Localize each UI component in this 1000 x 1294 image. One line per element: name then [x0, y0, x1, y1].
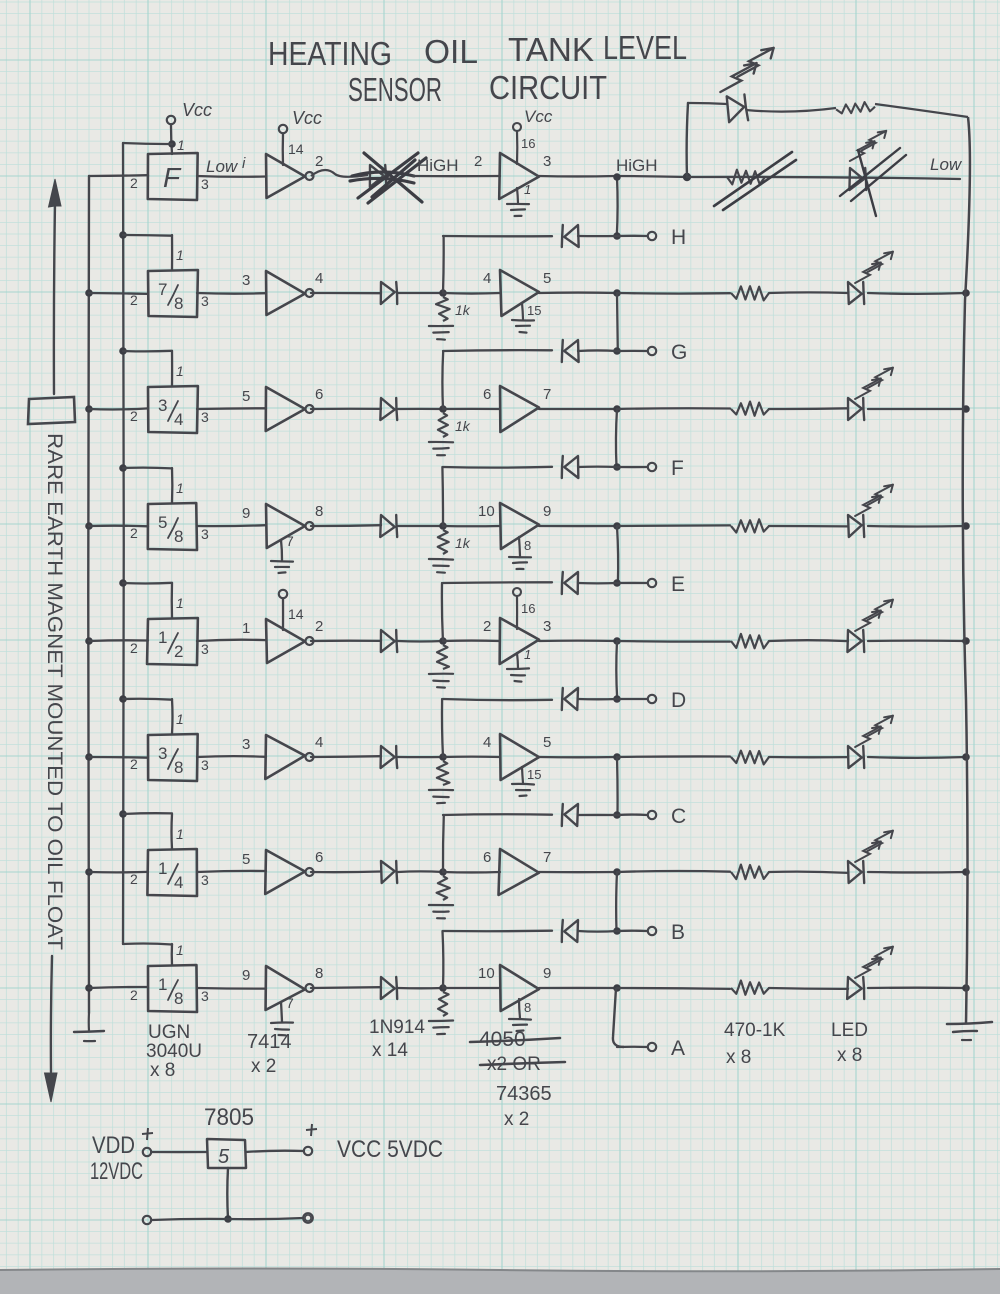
wire row 8: inverter to diode: [311, 986, 381, 989]
inverter 7414 row 5: [266, 619, 305, 663]
svg-text:LED: LED: [831, 1020, 868, 1041]
junction: Vcc bus tap row 4: [119, 464, 127, 472]
inverter 7414 row 7: [265, 850, 305, 894]
plus sign at output: [306, 1124, 317, 1136]
wire: 7805 ground stem: [226, 1168, 229, 1219]
svg-text:3040U: 3040U: [146, 1041, 202, 1062]
svg-text:SENSOR: SENSOR: [348, 71, 442, 108]
junction node H: [613, 232, 621, 240]
svg-text:1: 1: [176, 247, 184, 263]
pull-down resistor 1k row 2: [436, 297, 450, 321]
svg-text:TANK: TANK: [508, 31, 594, 68]
wire row 7: sensor pin 3 to inverter: [197, 871, 266, 872]
svg-text:1: 1: [524, 182, 531, 197]
ground: buffer pin 8 row 8: [519, 999, 520, 1018]
hall sensor U7 (1/4): [147, 849, 197, 896]
junction: Vcc bus tap row 1: [168, 140, 176, 148]
inverter 7414 row 1: [266, 154, 305, 198]
wire node C: to isolation diode: [443, 813, 552, 816]
svg-text:3: 3: [242, 272, 250, 289]
ground: buffer pin 15 row 6: [522, 767, 523, 783]
svg-text:4: 4: [174, 873, 183, 892]
wire row 4: diode to junction: [398, 525, 443, 527]
wire row 5: inverter to diode: [311, 640, 381, 643]
svg-text:74365: 74365: [496, 1083, 552, 1105]
svg-text:1: 1: [176, 711, 184, 727]
LED row 5: [847, 630, 861, 652]
diode 1N914 row 5: [381, 630, 395, 652]
LED row 2: [848, 282, 862, 304]
Vcc terminal row 1 (buffer pin 16): [513, 123, 521, 131]
plus sign at input: [142, 1128, 153, 1140]
pull-down resistor 1k row 6: [437, 761, 450, 785]
wire: Vcc bus to sensor pin 1 row 2: [123, 234, 172, 237]
terminal node E: [648, 579, 656, 587]
diode 1N914 row 8: [381, 977, 395, 999]
junction row 5 at node riser: [613, 637, 621, 645]
wire row 6: sensor pin 3 to inverter: [197, 755, 266, 758]
ground: buffer pin 8 row 4: [519, 537, 520, 556]
junction: Vcc bus tap row 3: [119, 347, 127, 355]
node H riser from row 1: [616, 177, 619, 236]
junction: Vcc bus tap row 2: [119, 231, 127, 239]
wire: Vcc tap to bus: [123, 143, 172, 144]
svg-text:x 8: x 8: [837, 1045, 862, 1066]
svg-text:1: 1: [158, 975, 167, 994]
wire row 2: resistor to LED: [769, 291, 848, 294]
wire node D: diode to riser: [578, 698, 617, 701]
svg-text:5: 5: [543, 270, 551, 287]
junction: outer bus to row 2: [85, 289, 93, 297]
wire row 6: inverter to diode: [311, 755, 381, 758]
svg-text:3: 3: [201, 988, 209, 1004]
diode 1N914 row 7: [381, 861, 395, 883]
terminal node A: [648, 1043, 656, 1051]
wire row 8: sensor pin 3 to inverter: [197, 987, 266, 990]
wire row 1: bus to sensor pin 2: [89, 174, 148, 177]
junction row 3 at pull-down: [439, 405, 447, 413]
wire: Vcc bus to sensor pin 1 row 4: [123, 466, 172, 469]
junction row 6 at pull-down: [439, 753, 447, 761]
svg-text:2: 2: [130, 640, 138, 656]
junction on ground return: [224, 1215, 232, 1223]
wire row 5: resistor to LED: [769, 639, 848, 642]
ground: pull-down row 5: [429, 673, 453, 676]
svg-text:D: D: [671, 689, 686, 712]
Vcc terminal row 5 (buffer pin 16): [513, 588, 521, 596]
svg-text:E: E: [671, 573, 685, 596]
hall sensor U1 (F): [148, 153, 198, 200]
wire row 5: bus to sensor pin 2: [89, 639, 148, 642]
wire node E: riser to terminal: [617, 582, 647, 584]
svg-text:2: 2: [130, 525, 138, 541]
wire row 6: LED to right bus: [868, 756, 966, 759]
svg-text:10: 10: [478, 965, 495, 982]
svg-text:2: 2: [130, 987, 138, 1003]
VCC output terminal: [304, 1147, 312, 1155]
ground: pull-down row 4: [429, 558, 453, 561]
svg-text:8: 8: [174, 758, 183, 777]
diode 1N914 row 4: [380, 515, 395, 537]
svg-text:3: 3: [201, 526, 209, 542]
ground at bottom of left bus: [88, 1013, 90, 1031]
isolation diode node F: [564, 456, 578, 478]
wire row 3: junction up to node G: [441, 351, 444, 409]
wire row 5: buffer output to right bus: [539, 640, 617, 643]
wire node G: diode to riser: [578, 349, 617, 352]
junction node E: [613, 579, 621, 587]
wire row 4: resistor to LED: [769, 525, 848, 528]
svg-text:9: 9: [543, 503, 551, 520]
svg-text:15: 15: [527, 303, 541, 318]
junction row 8 at pull-down: [439, 984, 447, 992]
ground: pull-down row 6: [429, 789, 453, 791]
svg-text:Low: Low: [930, 155, 963, 174]
svg-text:8: 8: [174, 989, 183, 1008]
svg-text:2: 2: [483, 618, 491, 635]
svg-text:5: 5: [242, 851, 250, 868]
up arrow (magnet travel, top): [49, 179, 62, 207]
svg-text:8: 8: [315, 503, 323, 520]
Vcc terminal row 5 (inverter pin 14): [279, 590, 287, 598]
svg-text:7: 7: [543, 849, 551, 866]
resistor 470-1K row 8: [731, 981, 769, 995]
ground: buffer pin 1 row 1: [517, 188, 518, 203]
svg-text:2: 2: [474, 153, 482, 170]
wire row 5: LED to right bus: [868, 639, 966, 642]
wire row 7: inverter to diode: [311, 870, 381, 873]
node A riser from row 8: [613, 988, 624, 1047]
svg-text:1: 1: [524, 647, 531, 662]
svg-text:G: G: [671, 341, 687, 364]
svg-text:9: 9: [242, 505, 250, 522]
junction: outer bus to row 8: [85, 984, 93, 992]
wire row 3: LED to right bus: [868, 408, 966, 410]
hall sensor U3 (3/4): [148, 386, 198, 433]
wire node G: to isolation diode: [443, 349, 552, 352]
junction row 5 on right bus: [962, 637, 970, 645]
svg-text:x 2: x 2: [504, 1109, 529, 1130]
svg-text:1: 1: [177, 137, 185, 153]
svg-text:H: H: [671, 226, 686, 249]
diode 1N914 row 2: [381, 282, 395, 304]
resistor 470-1K row 6: [731, 751, 769, 765]
svg-text:x 8: x 8: [726, 1047, 751, 1068]
svg-text:4: 4: [315, 734, 323, 751]
svg-text:5: 5: [543, 734, 551, 751]
resistor row 1 (corrected, top): [836, 101, 876, 114]
wire row 2: LED to right bus: [868, 292, 966, 295]
svg-text:9: 9: [543, 965, 551, 982]
svg-text:6: 6: [315, 849, 323, 866]
pull-down resistor 1k row 4: [438, 530, 449, 554]
svg-text:6: 6: [483, 849, 491, 866]
svg-text:RARE EARTH MAGNET MOUNTED: RARE EARTH MAGNET MOUNTED TO OIL FLOAT: [43, 433, 66, 950]
terminal node C: [648, 811, 656, 819]
svg-text:2: 2: [130, 756, 138, 772]
wire row 7: LED to right bus: [868, 871, 966, 874]
svg-text:9: 9: [242, 967, 250, 984]
pull-down resistor 1k row 7: [437, 876, 450, 900]
svg-text:1k: 1k: [455, 302, 471, 318]
hall sensor U6 (3/8): [148, 734, 198, 781]
wire row 3: resistor to LED: [769, 407, 848, 410]
svg-text:1: 1: [176, 363, 184, 379]
svg-text:3: 3: [158, 396, 167, 415]
wire row 7: bus to sensor pin 2: [89, 871, 148, 874]
wire: ground return left: [152, 1219, 228, 1220]
LED row 7: [848, 861, 862, 883]
svg-text:7414: 7414: [247, 1031, 292, 1053]
junction node F: [613, 463, 621, 471]
inverter 7414 row 2: [266, 271, 305, 315]
wire row 5: diode to junction: [398, 640, 443, 643]
svg-text:2: 2: [174, 642, 183, 661]
svg-text:2: 2: [130, 175, 138, 191]
svg-text:4: 4: [483, 270, 491, 287]
svg-text:1: 1: [158, 628, 167, 647]
buffer 74365 row 6: [500, 734, 539, 780]
svg-text:5: 5: [158, 513, 167, 532]
pull-down resistor 1k row 8: [438, 992, 449, 1016]
svg-text:8: 8: [524, 1000, 531, 1015]
svg-text:2: 2: [130, 408, 138, 424]
svg-text:x 2: x 2: [251, 1056, 276, 1077]
svg-text:14: 14: [288, 606, 304, 622]
inverter 7414 row 6: [265, 735, 305, 779]
wire row 1: to buffer: [412, 175, 500, 177]
junction row 4 at pull-down: [439, 522, 447, 530]
junction row 2 at pull-down: [439, 289, 447, 297]
svg-text:8: 8: [524, 538, 531, 553]
resistor 470-1K row 2: [731, 286, 769, 300]
wire: ground return right: [228, 1218, 303, 1219]
terminal node H: [648, 232, 656, 240]
svg-text:1k: 1k: [455, 535, 471, 551]
wire row 1: buffer output to right bus: [539, 175, 615, 178]
wire row 8: resistor to LED: [769, 987, 848, 990]
ground: pull-down row 2: [429, 325, 453, 327]
node G riser from row 2: [616, 293, 619, 351]
wire row 4: bus to sensor pin 2: [89, 525, 148, 528]
wire row 4: LED to right bus: [868, 525, 966, 528]
wire: outer common bus (left): [87, 176, 90, 1013]
junction: outer bus to row 6: [85, 753, 93, 761]
junction: Vcc bus tap row 7: [119, 810, 127, 818]
crossed-out resistor row 1: [727, 170, 765, 185]
isolation diode node E: [564, 572, 578, 594]
wire row 4: inverter to diode: [311, 524, 381, 527]
svg-text:3: 3: [201, 409, 209, 425]
wire row 6: bus to sensor pin 2: [89, 756, 148, 759]
svg-text:3: 3: [543, 153, 551, 170]
inverter 7414 row 8: [266, 966, 305, 1010]
diode 1N914 row 6: [381, 746, 395, 768]
junction row 7 at pull-down: [439, 868, 447, 876]
svg-text:1k: 1k: [455, 418, 471, 434]
wire row 2: buffer output to right bus: [539, 291, 617, 294]
svg-text:LEVEL: LEVEL: [603, 29, 687, 66]
wire row 2: diode to junction: [398, 292, 443, 294]
svg-text:Vcc: Vcc: [292, 108, 322, 128]
svg-text:2: 2: [130, 871, 138, 887]
wire row 6: junction up to node D: [442, 699, 443, 757]
svg-text:7: 7: [158, 280, 167, 299]
pull-down resistor 1k row 3: [438, 413, 448, 437]
wire: Vcc circle to sensor pin 1: [171, 125, 172, 154]
Vcc terminal row 1 (inverter pin 14): [279, 125, 287, 133]
svg-text:OIL: OIL: [424, 33, 478, 70]
wire row 1: inverter to crossed-out diode: [311, 170, 368, 177]
svg-text:7805: 7805: [204, 1104, 254, 1131]
wire row 7: junction to buffer: [443, 871, 500, 874]
svg-text:8: 8: [174, 527, 183, 546]
svg-text:1: 1: [176, 595, 184, 611]
svg-text:12VDC: 12VDC: [90, 1158, 143, 1185]
wire node H: riser to terminal: [617, 235, 647, 237]
wire row 2: bus to sensor pin 2: [89, 292, 148, 295]
terminal node G: [648, 347, 656, 355]
svg-text:x 14: x 14: [372, 1040, 408, 1061]
node B riser from row 7: [615, 872, 618, 931]
LED row 8: [847, 977, 862, 999]
svg-text:3: 3: [201, 641, 209, 657]
title line 2: SENSOR CIRCUIT: [348, 69, 607, 108]
junction node C: [613, 811, 621, 819]
wire row 2: junction to buffer: [443, 292, 500, 295]
isolation diode node B: [564, 920, 578, 942]
wire: Vcc bus to sensor pin 1 row 8: [123, 942, 172, 945]
junction row 4 at node riser: [613, 522, 621, 530]
svg-text:7: 7: [543, 386, 551, 403]
svg-text:3: 3: [201, 293, 209, 309]
LED row 4: [848, 515, 862, 537]
wire row 8: LED to right bus: [868, 987, 966, 990]
wire node A: riser to terminal: [617, 1046, 647, 1049]
VDD input terminal: [143, 1148, 151, 1156]
svg-text:VCC 5VDC: VCC 5VDC: [337, 1136, 443, 1163]
wire row 8: bus to sensor pin 2: [89, 987, 148, 988]
hall sensor U5 (1/2): [147, 618, 198, 665]
svg-text:470-1K: 470-1K: [724, 1020, 786, 1041]
wire: top bypass middle segment: [746, 108, 836, 112]
wire: top bypass right segment: [875, 104, 968, 117]
svg-text:14: 14: [288, 141, 304, 157]
node D riser from row 5: [615, 641, 618, 699]
buffer 74365 row 7: [499, 849, 539, 895]
wire node G: riser to terminal: [617, 350, 647, 352]
svg-text:Vcc: Vcc: [182, 100, 212, 120]
svg-text:UGN: UGN: [148, 1022, 190, 1043]
wire node C: diode to riser: [578, 814, 617, 816]
wire row 2: sensor pin 3 to inverter: [197, 292, 266, 295]
svg-text:3: 3: [543, 618, 551, 635]
wire row 2: junction up to node H: [442, 236, 445, 293]
wire node F: diode to riser: [578, 465, 617, 468]
wire node B: riser to terminal: [617, 930, 647, 933]
ground: pull-down row 7: [429, 904, 453, 906]
svg-text:Vcc: Vcc: [524, 107, 553, 126]
svg-text:1: 1: [176, 826, 184, 842]
svg-text:CIRCUIT: CIRCUIT: [489, 69, 607, 106]
svg-text:3: 3: [242, 736, 250, 753]
wire node B: diode to riser: [578, 930, 617, 933]
svg-text:1: 1: [158, 859, 167, 878]
svg-text:15: 15: [527, 767, 541, 782]
inverter 7414 row 3: [266, 387, 305, 431]
svg-text:7: 7: [286, 533, 294, 549]
LED row 3: [848, 398, 862, 420]
svg-text:VDD: VDD: [92, 1132, 135, 1159]
junction row 4 on right bus: [962, 522, 970, 530]
pull-down resistor 1k row 5: [437, 645, 449, 669]
wire row 8: junction to buffer: [443, 987, 500, 989]
wire row 3: junction to buffer: [443, 408, 500, 410]
ground: buffer pin 1 row 5: [517, 653, 518, 668]
LED row 1 (corrected, top): [726, 94, 748, 122]
terminal node F: [648, 463, 656, 471]
isolation diode node G: [564, 340, 578, 362]
junction: outer bus to row 4: [85, 522, 93, 530]
ground: pull-down row 3: [429, 441, 453, 444]
title line 1: HEATING OIL TANK LEVEL: [268, 29, 687, 72]
wire node D: riser to terminal: [617, 698, 647, 700]
ground at bottom of right bus: [947, 1022, 992, 1024]
svg-text:3: 3: [201, 757, 209, 773]
wire row 3: sensor pin 3 to inverter: [197, 407, 266, 410]
wire row 4: junction to buffer: [443, 525, 500, 528]
svg-text:HiGH: HiGH: [417, 156, 459, 175]
wire node F: riser to terminal: [617, 466, 647, 468]
ground: inverter pin 7 row 4: [281, 540, 282, 560]
wire node H: diode to riser: [578, 235, 617, 237]
svg-text:2: 2: [130, 292, 138, 308]
wire row 5: junction to buffer: [443, 639, 500, 642]
wire row 1: riser for corrected LED path: [687, 103, 688, 177]
hall sensor U4 (5/8): [148, 503, 197, 550]
wire: Vcc distribution bus: [122, 143, 125, 944]
svg-text:HEATING: HEATING: [268, 35, 392, 72]
svg-text:4: 4: [174, 410, 183, 429]
wire row 7: resistor to LED: [769, 872, 848, 873]
buffer 74365 row 8: [500, 965, 539, 1011]
wire: Vcc bus to sensor pin 1 row 7: [123, 812, 172, 815]
wire row 3: bus to sensor pin 2: [89, 408, 148, 409]
terminal node D: [648, 695, 656, 703]
svg-text:1: 1: [242, 620, 250, 637]
wire row 7: junction up to node C: [442, 815, 445, 872]
wire row 8: diode to junction: [398, 987, 443, 990]
junction: Vcc bus tap row 6: [119, 695, 127, 703]
wire node H: to isolation diode: [443, 235, 552, 238]
paper bottom edge and scanner band: [0, 1269, 1000, 1294]
svg-text:5: 5: [242, 388, 250, 405]
node F riser from row 3: [616, 409, 617, 467]
junction: outer bus to row 3: [85, 405, 93, 413]
wire row 7: diode to junction: [398, 870, 443, 873]
LED row 6: [848, 746, 862, 768]
junction: outer bus to row 5: [85, 637, 93, 645]
crossed-out diode row 1: [370, 165, 384, 187]
svg-text:16: 16: [521, 136, 535, 151]
svg-text:1: 1: [176, 480, 184, 496]
svg-text:x 8: x 8: [150, 1060, 175, 1081]
svg-text:3: 3: [201, 176, 209, 192]
junction: Vcc bus tap row 5: [119, 579, 127, 587]
svg-text:Low: Low: [206, 157, 239, 176]
down arrow (magnet travel, bottom): [51, 956, 52, 1072]
junction row 7 on right bus: [962, 868, 970, 876]
